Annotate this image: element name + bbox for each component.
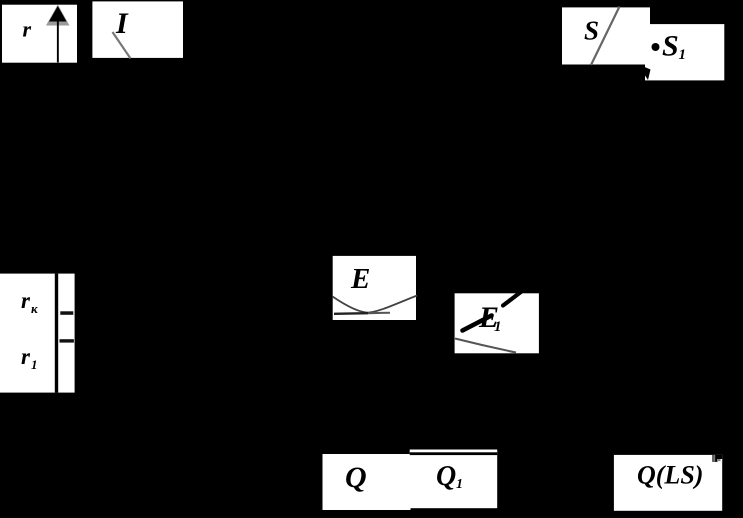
pointer stroke upper (curve E1 arrow tail): [503, 292, 522, 306]
label box I (curve I label): [92, 1, 183, 58]
svg-text:E: E: [350, 263, 370, 295]
svg-text:S: S: [584, 16, 599, 46]
marker dot on curve S1: [652, 43, 660, 51]
label box rk r1 (y-axis tick labels): [0, 274, 75, 393]
label box Q(LS) (x-axis label): [614, 455, 722, 511]
label box S1 (curve S1 label): [644, 24, 725, 80]
y-axis line segment: [55, 274, 58, 393]
curve I segment: [113, 32, 131, 59]
y-axis arrow: [46, 5, 70, 63]
label box E1 (curve E1 label): [455, 293, 539, 353]
svg-text:Q(LS): Q(LS): [637, 461, 703, 490]
svg-text:Q: Q: [436, 461, 456, 492]
curve E1 segment: [455, 339, 516, 353]
curve S segment: [591, 7, 620, 66]
label box Q1 (x-axis tick label): [410, 450, 498, 509]
pointer stroke over E1 label: [463, 316, 492, 331]
svg-text:I: I: [115, 7, 129, 40]
svg-text:1: 1: [494, 319, 502, 335]
y-axis tick rk: [60, 311, 73, 315]
svg-text:r: r: [21, 344, 31, 369]
svg-text:Q: Q: [345, 461, 367, 494]
label box r (y-axis label): [2, 5, 77, 63]
svg-text:1: 1: [679, 47, 687, 63]
svg-text:1: 1: [31, 357, 38, 372]
crossing curve segment in box E: [334, 312, 368, 315]
svg-text:r: r: [23, 17, 32, 42]
label box E (curve E label): [333, 256, 416, 320]
y-axis tick r1: [60, 339, 74, 342]
arrowhead of curve S1: [644, 67, 651, 81]
x-axis line segment: [410, 452, 498, 455]
x-axis arrowhead area (notch at box corner): [712, 455, 722, 462]
curve E segment (V shape): [333, 296, 418, 313]
label box Q (x-axis tick label): [323, 454, 411, 510]
svg-text:1: 1: [456, 477, 463, 492]
svg-text:S: S: [662, 30, 679, 63]
svg-text:r: r: [21, 288, 31, 313]
svg-text:к: к: [31, 301, 38, 316]
label box S (curve S label): [562, 7, 650, 64]
